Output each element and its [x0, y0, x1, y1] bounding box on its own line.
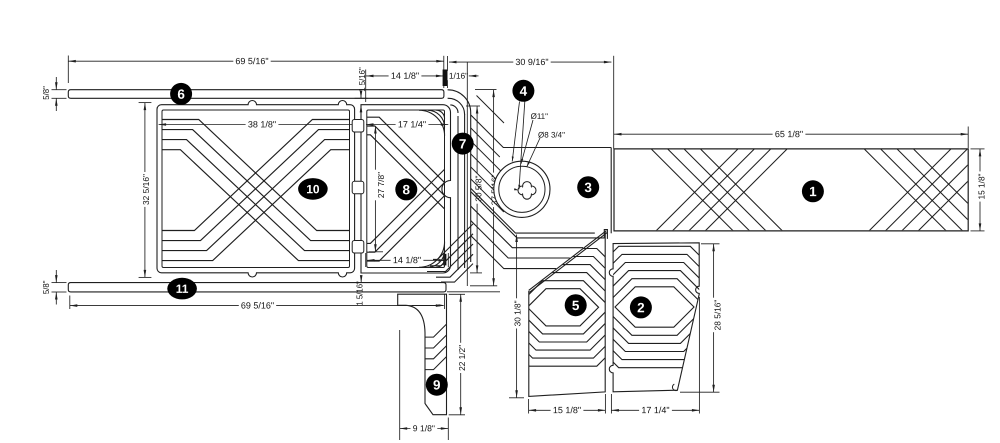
dimension 5/8 bottom-left bar	[40, 279, 49, 295]
svg-text:30 5/8": 30 5/8"	[473, 176, 483, 202]
balloon 4 leader lines	[512, 102, 519, 162]
balloon 2	[630, 296, 652, 318]
svg-text:9: 9	[433, 378, 441, 393]
dimension 30 9/16: extension line at 447.5	[447, 56, 449, 88]
svg-text:69 5/16": 69 5/16"	[235, 56, 268, 66]
balloon 10	[298, 178, 328, 200]
dimension 1/16 text and arrow	[448, 71, 470, 80]
svg-text:69 5/16": 69 5/16"	[241, 300, 274, 310]
balloon 1	[802, 180, 824, 202]
balloon 11	[167, 278, 197, 300]
dimension 17 1/4 line	[366, 124, 448, 126]
svg-text:27 7/8": 27 7/8"	[376, 172, 386, 198]
panel 8 inner border	[367, 110, 445, 268]
vertical extension line at x=467	[466, 62, 468, 286]
svg-text:15 1/8": 15 1/8"	[553, 405, 581, 415]
svg-text:14 1/8": 14 1/8"	[391, 71, 419, 81]
dimension 69 5/16 top line	[68, 60, 444, 62]
dimension 38 1/8 line	[159, 124, 363, 126]
dimension 9 1/8	[399, 330, 401, 440]
dimension 17 1/4 bottom	[610, 394, 612, 414]
svg-text:15 1/8": 15 1/8"	[976, 173, 986, 199]
svg-text:Ø11": Ø11"	[531, 112, 549, 121]
balloon 3	[577, 176, 599, 198]
dimension 15 1/8 right (rotated)	[971, 148, 985, 150]
part 9 chevron steps	[425, 324, 447, 337]
svg-text:4: 4	[520, 84, 528, 99]
svg-text:3: 3	[584, 180, 592, 195]
dimension 69 5/16 bottom line	[70, 305, 444, 307]
svg-text:9 1/8": 9 1/8"	[413, 423, 435, 433]
part 3 clover keyhole center	[518, 186, 527, 195]
panel 8 lattice crossing bands	[367, 110, 445, 267]
svg-text:1 5/16": 1 5/16"	[358, 67, 367, 92]
svg-text:2: 2	[637, 300, 645, 315]
dimension 69 5/16 bottom: extension lines	[69, 296, 71, 310]
part 2 nested hexagon rings	[558, 246, 751, 367]
arrowhead blob at 1/16 gap	[443, 70, 447, 87]
svg-text:5: 5	[572, 298, 580, 313]
part 1 long rail outline	[614, 149, 968, 231]
part 9 inner arrow line	[412, 304, 444, 306]
panel 10 lattice crossing bands	[162, 120, 350, 261]
svg-text:5/8": 5/8"	[42, 280, 51, 294]
balloon 9	[426, 374, 448, 396]
part 3 frame top edge with miter	[471, 115, 611, 148]
svg-text:30 9/16": 30 9/16"	[515, 57, 548, 67]
part 7 small curve top (panel8 edge to strip)	[450, 105, 458, 113]
part 9 leg outline	[398, 294, 447, 415]
part 3 circle detail outer ring	[494, 161, 550, 217]
part 3 extra miter hatch lines	[471, 128, 500, 157]
part 7 bottom mitered corner diagonals	[433, 224, 473, 260]
dimension 28 5/16 (rotated)	[701, 243, 720, 245]
svg-text:30 1/8": 30 1/8"	[513, 300, 523, 326]
svg-text:32 5/16": 32 5/16"	[141, 174, 151, 205]
part 3 right edge	[610, 148, 612, 234]
dimension 14 1/8 top: extension line	[365, 70, 367, 103]
part 5 nested hexagon rings	[470, 249, 655, 367]
dimension 1 5/16 top (rotated)	[356, 65, 365, 93]
svg-text:7: 7	[459, 136, 467, 151]
dimension 27 7/8 (rotated)	[374, 126, 376, 252]
svg-text:5/8": 5/8"	[42, 86, 51, 100]
dimension 30 9/16 line	[449, 61, 611, 63]
svg-text:65 1/8": 65 1/8"	[775, 129, 803, 139]
part 7 outer curve top	[448, 90, 471, 262]
svg-text:1/16": 1/16"	[449, 71, 468, 81]
dimension 14 1/8 top line	[366, 75, 443, 77]
dimension 30 1/8 (rotated)	[516, 235, 518, 398]
balloon 5	[565, 294, 587, 316]
svg-text:Ø8 3/4": Ø8 3/4"	[538, 130, 565, 139]
part 3 circle detail inner ring	[499, 166, 545, 212]
dimension 15 1/8 bottom	[528, 399, 530, 414]
dimension 30 9/16: extension line right	[613, 56, 615, 149]
dimension 30 5/8 (rotated)	[476, 106, 478, 273]
part 2 bottom-right notch	[672, 384, 677, 390]
panel 10 outer outline with notches	[157, 100, 355, 277]
dimension 37 5/16 (rotated)	[493, 90, 495, 286]
svg-text:11: 11	[176, 282, 189, 296]
svg-text:22 1/2": 22 1/2"	[457, 345, 467, 371]
part 3 band upper diagonal	[477, 96, 505, 124]
dimension 65 1/8: extension lines	[967, 127, 969, 149]
connector tabs between panel 10 and panel 8	[352, 120, 364, 133]
svg-text:17 1/4": 17 1/4"	[641, 405, 669, 415]
part 11 bottom rail bar	[68, 283, 446, 292]
svg-text:1: 1	[809, 184, 817, 199]
part 6 top rail bar	[68, 90, 444, 99]
dimension 5/8 top-left bar	[40, 85, 49, 101]
dimension 22 1/2 (rotated)	[449, 293, 465, 295]
dimension 69 5/16 top: extension line left	[67, 56, 69, 84]
dimension 14 1/8 bottom: extension lines	[365, 253, 367, 267]
balloon 6	[170, 83, 192, 105]
svg-text:6: 6	[177, 87, 185, 102]
svg-text:38 1/8": 38 1/8"	[248, 119, 276, 129]
dimension 69 5/16 top: extension line right	[443, 56, 445, 88]
label dia 11in with leader	[531, 112, 548, 121]
part 5 top edge double diagonal	[529, 231, 607, 291]
svg-text:14 1/8": 14 1/8"	[393, 255, 421, 265]
panel 10 inner border	[162, 110, 350, 268]
svg-text:28 5/16": 28 5/16"	[713, 300, 723, 331]
dimension 65 1/8 line	[614, 133, 968, 135]
balloon 8	[395, 178, 417, 200]
dimension 14 1/8 bottom: line	[367, 259, 446, 261]
balloon 4	[512, 80, 534, 102]
part 5 outline	[529, 232, 605, 397]
svg-text:8: 8	[403, 182, 411, 197]
part 1 lattice weave left motif and right motif	[651, 149, 1000, 231]
label dia 8 3/4in with leader	[537, 130, 566, 139]
dimension 1 5/16 bottom (rotated)	[353, 279, 362, 307]
balloon 7	[452, 133, 474, 155]
part 3 frame bottom strips with miters	[471, 188, 595, 233]
svg-text:10: 10	[306, 182, 320, 196]
part 7 corner strip verticals	[457, 116, 459, 270]
part 7 inner curve top	[448, 98, 465, 114]
part 2 outline with notches	[609, 243, 699, 392]
svg-text:17 1/4": 17 1/4"	[398, 119, 426, 129]
svg-text:1 5/16": 1 5/16"	[355, 281, 364, 306]
tick line at y 291.8 under part 7	[447, 291, 500, 293]
dimension 32 5/16 (rotated)	[144, 103, 146, 278]
panel 8 outer outline with right notch	[361, 105, 451, 273]
